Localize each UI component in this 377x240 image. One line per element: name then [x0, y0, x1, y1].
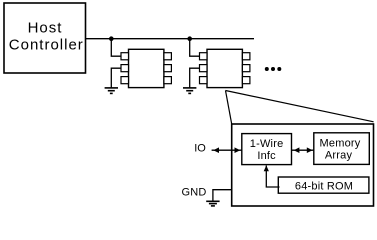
- U3 pin 6: [242, 53, 250, 60]
- host controller box U1: [4, 3, 86, 73]
- svg-text:Infc: Infc: [257, 150, 276, 162]
- memory array block: [314, 133, 370, 165]
- ground symbol G1: [105, 88, 118, 94]
- 1-wire slave IC U3 body: [207, 49, 242, 87]
- interface-memory bidirectional arrow: [292, 147, 314, 153]
- U2 pin 1: [121, 53, 129, 60]
- svg-text:Controller: Controller: [9, 37, 84, 54]
- U2 pin 3: [121, 77, 129, 84]
- callout wedge left line: [226, 91, 232, 125]
- svg-text:Memory: Memory: [320, 138, 361, 150]
- svg-text:64-bit ROM: 64-bit ROM: [295, 181, 353, 193]
- ellipsis more devices: [265, 67, 282, 71]
- callout wedge right line: [226, 91, 374, 122]
- U2 pin 5: [164, 65, 172, 72]
- IO bidirectional arrow: [212, 147, 242, 153]
- svg-text:IO: IO: [194, 143, 206, 155]
- U3 pin 4: [242, 77, 250, 84]
- svg-text:1-Wire: 1-Wire: [250, 138, 284, 150]
- ground symbol G2: [183, 88, 196, 94]
- U3 pin 3: [200, 77, 208, 84]
- U2 pin 6: [164, 53, 172, 60]
- svg-text:GND: GND: [182, 186, 207, 198]
- ground symbol G3: [206, 201, 219, 206]
- 64-bit ROM block: [278, 177, 369, 193]
- ROM to interface arrow wire: [264, 165, 280, 187]
- GND wire to detail box: [213, 190, 232, 201]
- U3 pin 1: [200, 53, 208, 60]
- 1-wire interface block: [242, 134, 292, 165]
- wire U2 pin 2 to ground: [111, 68, 121, 87]
- U3 pin 2: [200, 65, 208, 72]
- node junction dot A: [109, 36, 114, 41]
- 1-wire slave IC U2 body: [129, 49, 164, 87]
- wire bus drop to U3 pin 1: [190, 39, 200, 57]
- wire U3 pin 2 to ground: [190, 68, 200, 87]
- node junction dot B: [187, 36, 192, 41]
- U2 pin 4: [164, 77, 172, 84]
- wire 1-Wire bus: [86, 38, 254, 40]
- detail box of 1-wire device: [232, 124, 374, 206]
- U3 pin 5: [242, 65, 250, 72]
- svg-text:Host: Host: [28, 20, 63, 37]
- U2 pin 2: [121, 65, 129, 72]
- svg-text:Array: Array: [325, 150, 353, 162]
- wire bus drop to U2 pin 1: [111, 39, 121, 57]
